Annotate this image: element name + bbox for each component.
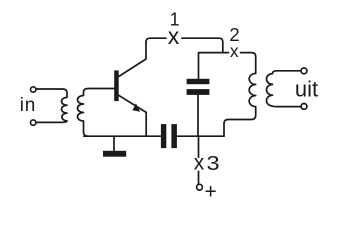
wire node 1 to corner	[182, 38, 223, 52]
wire rail right	[177, 135, 224, 137]
wire capacitor C2 bottom lead	[197, 95, 199, 136]
wire emitter rail left	[84, 135, 161, 137]
wire node 2 right segment	[241, 53, 256, 74]
terminal plus	[197, 184, 203, 190]
inductor L3 output-transformer primary	[224, 73, 256, 136]
transistor Q1 emitter lead	[119, 95, 147, 136]
capacitor C2 bottom plate	[187, 89, 210, 95]
inductor L4 output-transformer secondary	[267, 71, 301, 107]
wire capacitor C2 top lead	[198, 53, 200, 78]
inductor L1 input-transformer primary	[61, 89, 67, 122]
ground stem	[113, 136, 115, 150]
transistor Q1 collector lead	[119, 42, 146, 77]
ground bar	[103, 151, 126, 157]
terminal in-top	[31, 87, 36, 92]
wire in-bottom to primary	[36, 121, 62, 123]
wire base	[89, 88, 115, 90]
svg-text:2: 2	[229, 24, 239, 45]
wire node 2 left segment	[199, 52, 229, 54]
svg-text:in: in	[20, 95, 36, 116]
inductor L2 input-transformer secondary	[78, 89, 89, 137]
wire supply stem upper	[198, 136, 200, 157]
terminal uit-top	[301, 68, 307, 74]
svg-text:1: 1	[170, 10, 180, 30]
wire in-top to primary	[36, 88, 62, 90]
svg-text:+: +	[205, 181, 217, 204]
capacitor C2 top plate	[187, 79, 210, 84]
transistor Q1 base bar	[114, 70, 119, 101]
wire supply stem lower	[198, 171, 200, 183]
capacitor C1 left plate	[161, 124, 166, 148]
terminal in-bottom	[31, 120, 36, 125]
transistor Q1 emitter arrow	[132, 103, 140, 112]
wire collector top to node 1	[146, 38, 166, 42]
capacitor C1 right plate	[171, 124, 177, 148]
svg-text:uit: uit	[295, 77, 318, 102]
svg-text:3: 3	[207, 152, 220, 175]
terminal uit-bottom	[301, 104, 307, 110]
